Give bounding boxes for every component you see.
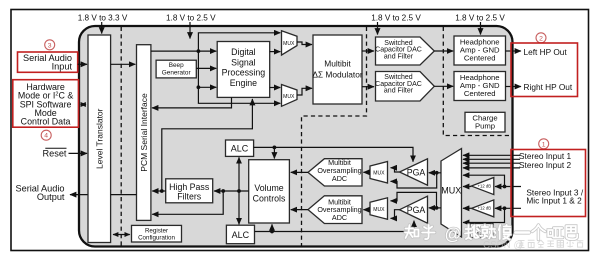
wire control data (bidirectional) bbox=[81, 104, 87, 106]
block: Switched Capacitor DAC and Filter 2 bbox=[375, 72, 434, 102]
svg-text:+12 dB: +12 dB bbox=[478, 183, 492, 188]
block: Volume Controls bbox=[249, 160, 290, 223]
wire stereo input 1 L bbox=[463, 154, 520, 156]
wire tap down into ALC2 bbox=[238, 191, 240, 224]
svg-text:ΔΣ Modulator: ΔΣ Modulator bbox=[312, 69, 363, 79]
wire stereo input 2 L bbox=[463, 162, 520, 164]
svg-text:MUX: MUX bbox=[441, 185, 461, 195]
svg-text:Stereo Input 2: Stereo Input 2 bbox=[519, 160, 572, 170]
svg-text:Filters: Filters bbox=[177, 192, 202, 202]
wire ALC1 branch into volume controls bbox=[273, 147, 275, 158]
mic amplifier 1 bbox=[471, 178, 493, 195]
wire MUX output ch1 to PGA1 bbox=[429, 172, 441, 174]
wire serial audio in LT to PCM bbox=[111, 63, 136, 65]
svg-text:Control Data: Control Data bbox=[21, 117, 71, 127]
block: Digital Signal Processing Engine bbox=[217, 42, 270, 98]
wire mic 1 direct tap to MUX bbox=[463, 175, 505, 186]
svg-text:Input: Input bbox=[52, 61, 73, 71]
block: Level Translator bbox=[88, 35, 111, 243]
wire ADC1 to volume controls bbox=[291, 171, 308, 173]
svg-text:Multibit: Multibit bbox=[324, 58, 351, 68]
svg-text:MUX: MUX bbox=[283, 41, 295, 47]
red callout box: Serial Audio Input bbox=[18, 52, 78, 72]
junction bbox=[197, 85, 201, 89]
svg-text:3: 3 bbox=[48, 42, 52, 49]
circled number 3 bbox=[45, 40, 55, 50]
wire serial audio output bbox=[70, 194, 88, 196]
svg-text:1.8 V to 3.3 V: 1.8 V to 3.3 V bbox=[78, 14, 128, 23]
block: Headphone Amp 1 bbox=[454, 36, 506, 65]
svg-text:Mic Input 1 & 2: Mic Input 1 & 2 bbox=[526, 196, 582, 206]
wire reset bbox=[69, 152, 88, 154]
svg-text:Generator: Generator bbox=[162, 69, 192, 76]
svg-text:Configuration: Configuration bbox=[138, 235, 175, 242]
wire PGA1 output to small mux 1 bbox=[391, 168, 400, 172]
wire branch down to DSP input 3 bbox=[198, 51, 216, 87]
small mux 1 (record ch1) bbox=[370, 162, 388, 184]
wire tap to PCM (bypass) bbox=[152, 191, 223, 214]
wire beep to DSP bbox=[196, 67, 216, 69]
PGA 2 bbox=[400, 196, 428, 223]
svg-text:Digital: Digital bbox=[231, 47, 255, 57]
supply arrow digital core bbox=[189, 22, 191, 39]
block: High Pass Filters bbox=[166, 179, 213, 203]
svg-text:CSDN @: CSDN @ bbox=[483, 240, 523, 251]
wire mic amp 1 output to MUX bbox=[463, 186, 471, 188]
block: mic bias bbox=[470, 224, 493, 238]
dashed domain line 2 (digital/analog boundary) bbox=[302, 27, 367, 246]
watermark csdn bbox=[483, 240, 583, 251]
wire volume controls to HPF bbox=[214, 190, 249, 192]
svg-text:and Filter: and Filter bbox=[384, 88, 414, 95]
svg-text:4: 4 bbox=[44, 133, 48, 140]
svg-text:+12 dB: +12 dB bbox=[478, 206, 492, 211]
mic amplifier 2 bbox=[471, 200, 493, 217]
wire branch up to DAC mux A bbox=[198, 33, 280, 51]
block: Multibit Delta-Sigma Modulator bbox=[312, 35, 363, 104]
wire headphone left output bbox=[506, 50, 522, 52]
red callout box: HP outputs bbox=[511, 43, 578, 97]
svg-text:Reset: Reset bbox=[42, 149, 66, 159]
wire ADC2 to volume controls bbox=[291, 209, 308, 211]
block: Multibit Oversampling ADC 1 bbox=[308, 158, 362, 186]
wire record path from HPF up into DSP bbox=[162, 99, 253, 191]
block: Multibit Oversampling ADC 2 bbox=[308, 196, 362, 224]
circled number 4 bbox=[41, 130, 51, 140]
red callout box: stereo/mic inputs bbox=[511, 150, 586, 217]
svg-text:Output: Output bbox=[37, 192, 65, 202]
svg-text:PGA: PGA bbox=[407, 205, 426, 215]
junction bbox=[160, 189, 164, 193]
wire modulator to DAC 2 bbox=[362, 86, 374, 88]
wire headphone right output bbox=[506, 86, 522, 88]
svg-text:MUX: MUX bbox=[373, 207, 385, 213]
svg-text:1.8 V to 2.5 V: 1.8 V to 2.5 V bbox=[371, 14, 421, 23]
wire stereo input 1 R bbox=[463, 158, 520, 160]
wire HPF output to PCM bbox=[152, 190, 166, 192]
wire mic input 2 bbox=[495, 207, 521, 209]
block: Headphone Amp 2 bbox=[454, 72, 506, 101]
svg-text:Processing: Processing bbox=[222, 68, 266, 78]
wire small mux1 to ADC1 bbox=[363, 171, 370, 173]
supply arrow DAC section bbox=[377, 22, 379, 35]
dashed domain line 3 (DAC/headphone boundary) bbox=[443, 27, 511, 136]
svg-text:MUX: MUX bbox=[373, 170, 385, 176]
wire PGA2 output to small mux 2 bbox=[391, 210, 400, 219]
supply arrow headphone amps bbox=[480, 22, 482, 35]
small mux 2 (record ch2) bbox=[370, 198, 388, 220]
wire branch to DAC mux B lower input bbox=[198, 87, 280, 103]
wire mux B to modulator bbox=[297, 88, 312, 95]
chip body (codec IC outline) bbox=[79, 26, 513, 247]
svg-text:PCM Serial Interface: PCM Serial Interface bbox=[139, 93, 149, 172]
wire ALC2 branch into volume controls bbox=[271, 224, 273, 231]
svg-text:Register: Register bbox=[145, 228, 168, 235]
svg-text:@: @ bbox=[445, 226, 462, 244]
svg-text:ADC: ADC bbox=[332, 213, 347, 222]
wire mux A to modulator bbox=[297, 42, 312, 45]
svg-text:Left HP Out: Left HP Out bbox=[524, 47, 568, 57]
wire PCM playback data to DSP input 1 bbox=[151, 50, 216, 52]
wire DAC1 to headphone amp 1 bbox=[434, 50, 453, 52]
PGA 1 bbox=[400, 159, 428, 185]
wire ALC1 gain control to PGA1 bbox=[254, 147, 413, 161]
mux B (DAC channel 2 selector) bbox=[282, 85, 298, 107]
svg-text:Controls: Controls bbox=[253, 193, 286, 203]
svg-text:ADC: ADC bbox=[332, 174, 347, 183]
dashed domain line 1 bbox=[120, 27, 122, 246]
svg-text:High Pass: High Pass bbox=[169, 182, 210, 192]
svg-text:ALC: ALC bbox=[231, 144, 249, 154]
svg-text:and Filter: and Filter bbox=[384, 53, 414, 60]
mux A (DAC channel 1 selector) bbox=[282, 31, 298, 55]
svg-text:1.8 V to 2.5 V: 1.8 V to 2.5 V bbox=[455, 14, 505, 23]
wire DAC2 to headphone amp 2 bbox=[434, 85, 453, 87]
watermark zhihu bbox=[405, 225, 577, 240]
wire serial audio input to level translator bbox=[78, 63, 87, 65]
wire small mux2 to ADC2 bbox=[363, 209, 370, 211]
wire mic amp 2 output to MUX bbox=[463, 207, 471, 209]
svg-text:Beep: Beep bbox=[169, 62, 184, 69]
block: Switched Capacitor DAC and Filter 1 bbox=[375, 37, 434, 65]
svg-text:Engine: Engine bbox=[230, 78, 257, 88]
wire DSP record data to PCM bbox=[152, 97, 232, 108]
svg-text:1: 1 bbox=[542, 141, 546, 148]
wire mic input 1 bbox=[495, 186, 521, 188]
svg-text:Pump: Pump bbox=[475, 122, 495, 131]
svg-text:1.8 V to 2.5 V: 1.8 V to 2.5 V bbox=[166, 14, 216, 23]
block: Register Configuration bbox=[132, 225, 182, 242]
svg-text:Centered: Centered bbox=[464, 89, 496, 98]
wire DSP output to mux A bbox=[270, 51, 281, 53]
block: Beep Generator bbox=[156, 60, 196, 78]
supply arrow into Level Translator bbox=[101, 22, 103, 34]
svg-text:2: 2 bbox=[539, 35, 543, 42]
block: ALC 2 bbox=[226, 225, 254, 244]
wire LT to register configuration (bidirectional) bbox=[113, 234, 130, 236]
wire tap up into ALC1 bbox=[238, 157, 240, 191]
svg-text:Centered: Centered bbox=[464, 54, 496, 63]
wire serial audio out PCM to LT bbox=[111, 194, 137, 196]
wire mic 2 direct tap to MUX bbox=[463, 208, 505, 222]
wire stereo input 2 R bbox=[463, 167, 520, 169]
wire MUX output ch2 to PGA2 bbox=[429, 207, 441, 209]
block: PCM Serial Interface bbox=[137, 45, 151, 221]
svg-text:Volume: Volume bbox=[254, 183, 283, 193]
block: Charge Pump bbox=[465, 112, 505, 132]
junction bbox=[197, 49, 201, 53]
wire DSP output to mux B bbox=[270, 87, 281, 89]
wire modulator to DAC 1 bbox=[362, 50, 374, 52]
svg-text:ALC: ALC bbox=[232, 230, 250, 240]
wire PGA1 bypass to small mux 1 bbox=[391, 173, 437, 188]
svg-text:PGA: PGA bbox=[407, 167, 426, 177]
svg-text:Signal: Signal bbox=[231, 57, 255, 67]
circled number 2 bbox=[536, 33, 546, 43]
circled number 1 bbox=[539, 139, 549, 149]
svg-text:MUX: MUX bbox=[283, 94, 295, 100]
label Reset (active low) bbox=[42, 148, 66, 158]
red callout box: Hardware/Software Mode Control Data bbox=[13, 80, 79, 128]
svg-text:Level Translator: Level Translator bbox=[94, 108, 104, 169]
svg-text:Right HP Out: Right HP Out bbox=[524, 82, 573, 92]
block: ALC 1 bbox=[226, 140, 254, 156]
wire PGA2 bypass to small mux 2 bbox=[391, 192, 437, 208]
wire ALC2 gain control to PGA2 bbox=[255, 221, 415, 232]
input selector big MUX bbox=[441, 149, 462, 238]
